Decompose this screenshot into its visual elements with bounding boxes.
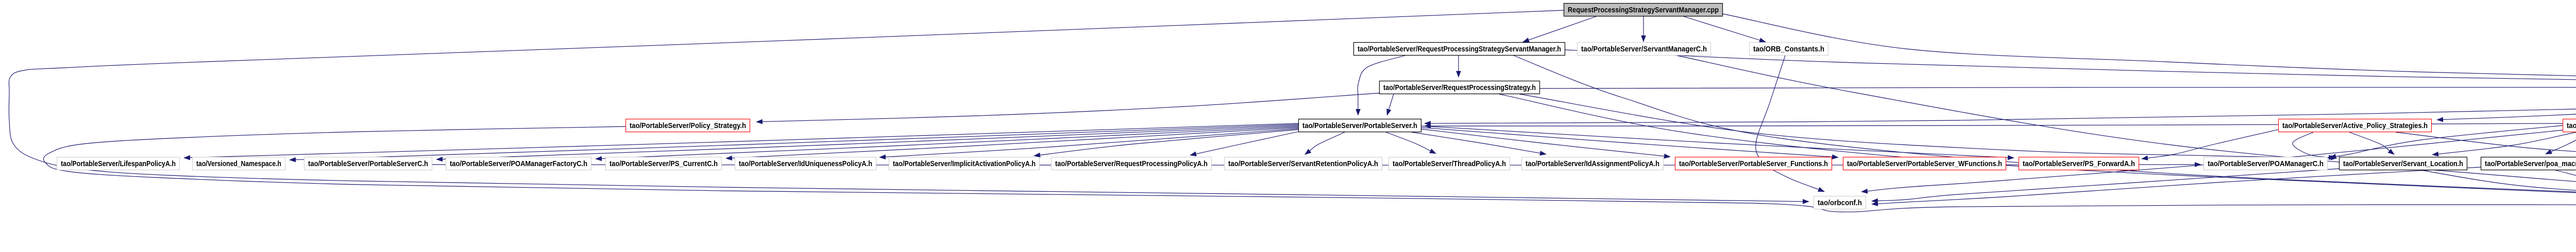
node N28: tao/PortableServer/RequestProcessingPolicyA.h — [1052, 157, 1212, 170]
node N35: tao/PortableServer/POAManagerC.h — [2204, 157, 2328, 170]
node N37: tao/PortableServer/poa_macros.h — [2481, 157, 2576, 170]
svg-text:tao/PortableServer/ServantRete: tao/PortableServer/ServantRetentionPolic… — [1228, 159, 1378, 168]
svg-text:tao/PortableServer/Active_Poli: tao/PortableServer/Active_Policy_Strateg… — [2282, 121, 2428, 130]
wire edge N7 to N34 — [1421, 126, 2008, 157]
node N22: tao/Versioned_Namespace.h — [193, 157, 285, 170]
wire edge N4 to N6 — [762, 93, 1379, 122]
wire edge N37 to N48 — [2555, 170, 2576, 200]
svg-text:tao/orbconf.h: tao/orbconf.h — [1818, 199, 1862, 207]
svg-text:tao/PortableServer/PortableSer: tao/PortableServer/PortableServerC.h — [308, 159, 428, 168]
node N26: tao/PortableServer/IdUniquenessPolicyA.h — [735, 157, 876, 170]
node N0: RequestProcessingStrategyServantManager.cpp — [1564, 4, 1723, 16]
wire edge N7 to N33 — [1421, 128, 1832, 157]
node N36: tao/PortableServer/Servant_Location.h — [2340, 157, 2467, 170]
node N31: tao/PortableServer/IdAssignmentPolicyA.h — [1522, 157, 1664, 170]
node N24: tao/PortableServer/POAManagerFactoryC.h — [446, 157, 591, 170]
svg-text:tao/PortableServer/PortableSer: tao/PortableServer/PortableServer_Functi… — [1679, 159, 1828, 168]
node N7: tao/PortableServer/PortableServer.h — [1299, 119, 1421, 132]
svg-text:tao/PortableServer/POAManagerC: tao/PortableServer/POAManagerC.h — [2208, 159, 2324, 168]
svg-text:tao/PortableServer/ImplicitAct: tao/PortableServer/ImplicitActivationPol… — [893, 159, 1036, 168]
wire edge N4 to N5 — [1540, 87, 2576, 88]
wire edge N9 to N37 — [2551, 132, 2576, 152]
wire edge N9 to N35 — [2336, 125, 2563, 156]
svg-text:tao/PortableServer/PS_ForwardA: tao/PortableServer/PS_ForwardA.h — [2023, 159, 2135, 168]
wire edge N7 to N26 — [886, 129, 1298, 157]
wire edge N36 to N47 — [1878, 169, 2339, 201]
node N29: tao/PortableServer/ServantRetentionPolicyA.h — [1225, 157, 1382, 170]
svg-text:tao/Versioned_Namespace.h: tao/Versioned_Namespace.h — [196, 159, 281, 168]
wire edge N9 to N7 — [1431, 123, 2563, 126]
svg-text:tao/PortableServer/PS_CurrentC: tao/PortableServer/PS_CurrentC.h — [609, 159, 718, 168]
svg-text:RequestProcessingStrategyServa: RequestProcessingStrategyServantManager.… — [1568, 6, 1719, 14]
wire edge N0 to N2 — [1643, 16, 1644, 35]
svg-text:tao/PortableServer/poa_macros.: tao/PortableServer/poa_macros.h — [2485, 159, 2576, 168]
wire edge N0 to N5 — [1723, 14, 2576, 86]
node N2: tao/PortableServer/ServantManagerC.h — [1578, 43, 1711, 56]
svg-text:tao/PortableServer/PortableSer: tao/PortableServer/PortableServer.h — [1302, 121, 1417, 130]
wire edge N7 to N24 — [602, 127, 1298, 158]
wire edge N37 to N47 — [1878, 167, 2481, 204]
wire edge N4 to N36 — [1520, 94, 2331, 158]
node N27: tao/PortableServer/ImplicitActivationPolicyA.h — [889, 157, 1040, 170]
svg-text:tao/PortableServer/PortableSer: tao/PortableServer/PortableServer_WFunct… — [1847, 159, 2002, 168]
svg-text:tao/PortableServer/Servant_Loc: tao/PortableServer/Servant_Location.h — [2343, 159, 2463, 168]
svg-text:tao/PortableServer/IdUniquenes: tao/PortableServer/IdUniquenessPolicyA.h — [739, 159, 872, 168]
wire edge N8 to N38 — [2396, 132, 2576, 155]
wire edge N7 to N32 — [1421, 129, 1664, 156]
wire edge N9 to N36 — [2438, 132, 2576, 154]
svg-text:tao/PortableServer/POAManagerF: tao/PortableServer/POAManagerFactoryC.h — [450, 159, 587, 168]
node N8: tao/PortableServer/Active_Policy_Strategies.h — [2279, 119, 2432, 132]
wire edge N7 to N27 — [1040, 130, 1298, 155]
node N9: tao/PortableServer/Object_Adapter.h — [2563, 119, 2576, 132]
svg-text:tao/PortableServer/IdAssignmen: tao/PortableServer/IdAssignmentPolicyA.h — [1526, 159, 1659, 168]
node N33: tao/PortableServer/PortableServer_WFunctions.h — [1843, 157, 2006, 170]
svg-text:tao/ORB_Constants.h: tao/ORB_Constants.h — [1753, 45, 1824, 53]
wire edge N6 to N48 — [43, 127, 2576, 212]
wire edge N7 to N25 — [732, 128, 1298, 158]
wire edge N7 to N29 — [1310, 132, 1345, 151]
wire edge N1 to N5 — [1565, 50, 2576, 87]
node N21: tao/PortableServer/LifespanPolicyA.h — [57, 157, 180, 170]
svg-text:tao/PortableServer/RequestProc: tao/PortableServer/RequestProcessingPoli… — [1055, 159, 1208, 168]
node N6: tao/PortableServer/Policy_Strategy.h — [626, 119, 750, 132]
wire edge N23 to N35 — [432, 165, 2195, 165]
wire edge N7 to N30 — [1386, 132, 1430, 151]
node N4: tao/PortableServer/RequestProcessingStrategy.h — [1380, 81, 1540, 94]
node N3: tao/ORB_Constants.h — [1750, 43, 1828, 56]
node N32: tao/PortableServer/PortableServer_Functions.h — [1675, 157, 1832, 170]
wire edge N7 to N23 — [443, 125, 1298, 159]
wire edge N7 to N21 — [190, 123, 1298, 158]
wire edge N7 to N28 — [1196, 132, 1298, 154]
wire edge N1 to N4 — [1458, 56, 1459, 71]
wire edge N5 to N8 — [2443, 88, 2576, 120]
wire edge N0 to N3 — [1684, 16, 1760, 40]
wire edge N0 to N47 — [9, 10, 1803, 202]
svg-text:tao/PortableServer/Policy_Stra: tao/PortableServer/Policy_Strategy.h — [630, 121, 746, 130]
node N25: tao/PortableServer/PS_CurrentC.h — [606, 157, 722, 170]
svg-text:tao/PortableServer/ServantMana: tao/PortableServer/ServantManagerC.h — [1581, 45, 1707, 53]
wire edge N8 to N35 — [2293, 132, 2330, 157]
wire edge N7 to N22 — [296, 124, 1298, 160]
wire edge N8 to N34 — [2148, 130, 2278, 158]
wire edge N9 to N47 — [1868, 130, 2563, 191]
wire edge N0 to N1 — [1529, 16, 1596, 40]
node N23: tao/PortableServer/PortableServerC.h — [304, 157, 432, 170]
node N30: tao/PortableServer/ThreadPolicyA.h — [1389, 157, 1510, 170]
wire edge N4 to N7 — [1389, 94, 1394, 110]
wire edge N4 to N48 — [1499, 94, 2576, 202]
wire edge N36 to N48 — [2421, 170, 2576, 202]
node N34: tao/PortableServer/PS_ForwardA.h — [2019, 157, 2139, 170]
svg-text:tao/PortableServer/ThreadPolic: tao/PortableServer/ThreadPolicyA.h — [1393, 159, 1506, 168]
wire edge N5 to N7 — [1431, 89, 2576, 123]
svg-text:tao/PortableServer/RequestProc: tao/PortableServer/RequestProcessingStra… — [1383, 83, 1536, 92]
svg-text:tao/PortableServer/Object_Adap: tao/PortableServer/Object_Adapter.h — [2567, 121, 2576, 130]
wire edge N1 to N48 — [1514, 56, 2576, 200]
wire edge N3 to N47 — [1756, 56, 1819, 189]
svg-text:tao/PortableServer/LifespanPol: tao/PortableServer/LifespanPolicyA.h — [61, 159, 176, 168]
svg-text:tao/PortableServer/RequestProc: tao/PortableServer/RequestProcessingStra… — [1358, 45, 1561, 53]
wire edge N7 to N31 — [1412, 132, 1540, 153]
wire edge N1 to N7 — [1358, 56, 1405, 109]
node N47: tao/orbconf.h — [1814, 196, 1866, 209]
wire edge N2 to N48 — [1677, 56, 2576, 197]
wire edge N8 to N36 — [2349, 132, 2389, 151]
node N1: tao/PortableServer/RequestProcessingStrategyServantManager.h — [1354, 43, 1565, 56]
